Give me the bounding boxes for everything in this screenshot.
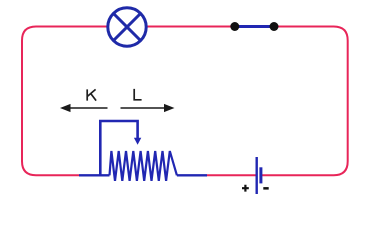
- arrow K (left) shaft: [70, 107, 108, 109]
- lamp L1 cross: [114, 14, 141, 41]
- arrow K head: [60, 104, 71, 112]
- battery + label: [242, 185, 249, 192]
- wire bottom middle-right (red): [207, 174, 256, 176]
- resistor zigzag (rheostat element): [110, 151, 177, 181]
- wire bottom blue segment right of resistor: [177, 174, 207, 176]
- battery short plate (-): [259, 167, 262, 183]
- wire bottom blue segment left of resistor: [79, 174, 110, 176]
- arrow L (right) shaft: [121, 107, 166, 109]
- wiper arm wire (up-over): [100, 121, 137, 175]
- switch contact dot right: [270, 22, 279, 31]
- switch S1 blade (closed): [235, 25, 274, 28]
- battery - label: [263, 187, 268, 190]
- switch contact dot left: [230, 22, 239, 31]
- wire top middle (red): [148, 26, 232, 28]
- lamp L1 circle: [108, 8, 146, 46]
- label L: [134, 89, 141, 100]
- wire top-right + right + bottom-right (red): [261, 27, 348, 176]
- wire top-left + left + bottom-left (red): [22, 27, 107, 176]
- wiper arrowhead: [134, 138, 141, 145]
- label K: [87, 89, 96, 100]
- arrow L head: [164, 104, 175, 112]
- battery long plate (+): [256, 157, 258, 194]
